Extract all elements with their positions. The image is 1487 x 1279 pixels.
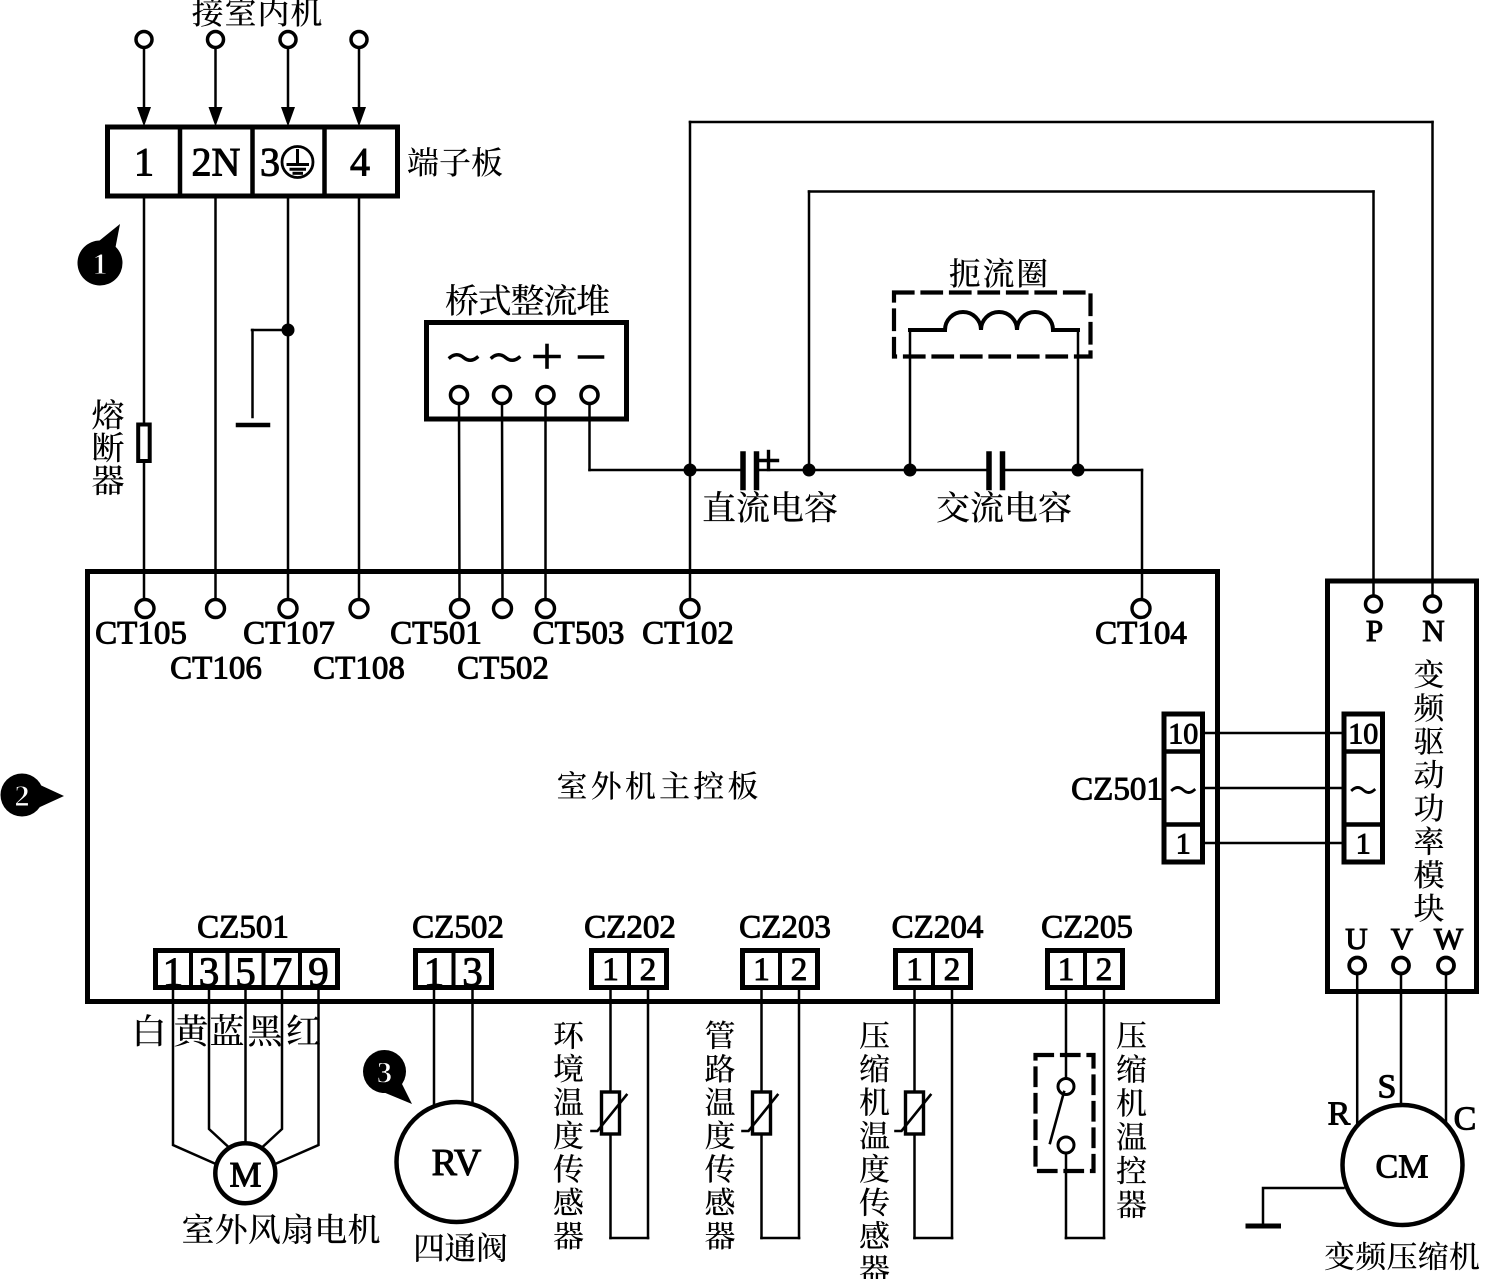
svg-text:10: 10 (1168, 717, 1198, 750)
svg-text:2: 2 (14, 778, 30, 813)
svg-text:P: P (1366, 613, 1383, 648)
svg-text:3: 3 (377, 1055, 393, 1090)
svg-text:CT104: CT104 (1095, 615, 1187, 651)
svg-text:M: M (229, 1154, 261, 1194)
svg-text:CZ204: CZ204 (892, 909, 984, 945)
svg-text:1: 1 (134, 139, 154, 184)
svg-text:10: 10 (1348, 717, 1378, 750)
svg-text:1: 1 (92, 246, 108, 281)
svg-text:S: S (1378, 1069, 1397, 1106)
svg-text:CT502: CT502 (457, 650, 549, 686)
svg-text:1: 1 (906, 952, 923, 988)
svg-text:CZ203: CZ203 (739, 909, 831, 945)
svg-text:CT105: CT105 (95, 615, 187, 651)
svg-text:2: 2 (944, 952, 961, 988)
svg-text:W: W (1434, 921, 1464, 956)
svg-text:RV: RV (432, 1142, 482, 1184)
svg-text:CM: CM (1376, 1149, 1429, 1186)
svg-text:1: 1 (1058, 952, 1075, 988)
svg-text:CT107: CT107 (243, 615, 335, 651)
svg-text:CZ501: CZ501 (197, 909, 289, 945)
svg-text:U: U (1345, 921, 1367, 956)
svg-text:CT102: CT102 (642, 615, 734, 651)
svg-text:CZ205: CZ205 (1041, 909, 1133, 945)
svg-text:R: R (1328, 1096, 1351, 1133)
svg-text:CZ501: CZ501 (1071, 771, 1163, 807)
svg-text:2: 2 (640, 952, 657, 988)
svg-text:1: 1 (602, 952, 619, 988)
svg-text:4: 4 (350, 139, 370, 184)
svg-text:1: 1 (1356, 827, 1371, 860)
svg-text:CZ202: CZ202 (584, 909, 676, 945)
svg-text:2: 2 (791, 952, 808, 988)
svg-text:C: C (1454, 1101, 1477, 1138)
svg-text:1: 1 (1176, 827, 1191, 860)
svg-text:CT108: CT108 (313, 650, 405, 686)
svg-text:N: N (1422, 613, 1444, 648)
svg-text:1: 1 (753, 952, 770, 988)
svg-text:CT501: CT501 (390, 615, 482, 651)
svg-text:CT503: CT503 (533, 615, 625, 651)
svg-text:CT106: CT106 (170, 650, 262, 686)
svg-text:2N: 2N (192, 139, 241, 184)
svg-text:V: V (1391, 921, 1414, 956)
svg-text:CZ502: CZ502 (412, 909, 504, 945)
svg-text:2: 2 (1096, 952, 1113, 988)
svg-text:3: 3 (260, 139, 280, 184)
